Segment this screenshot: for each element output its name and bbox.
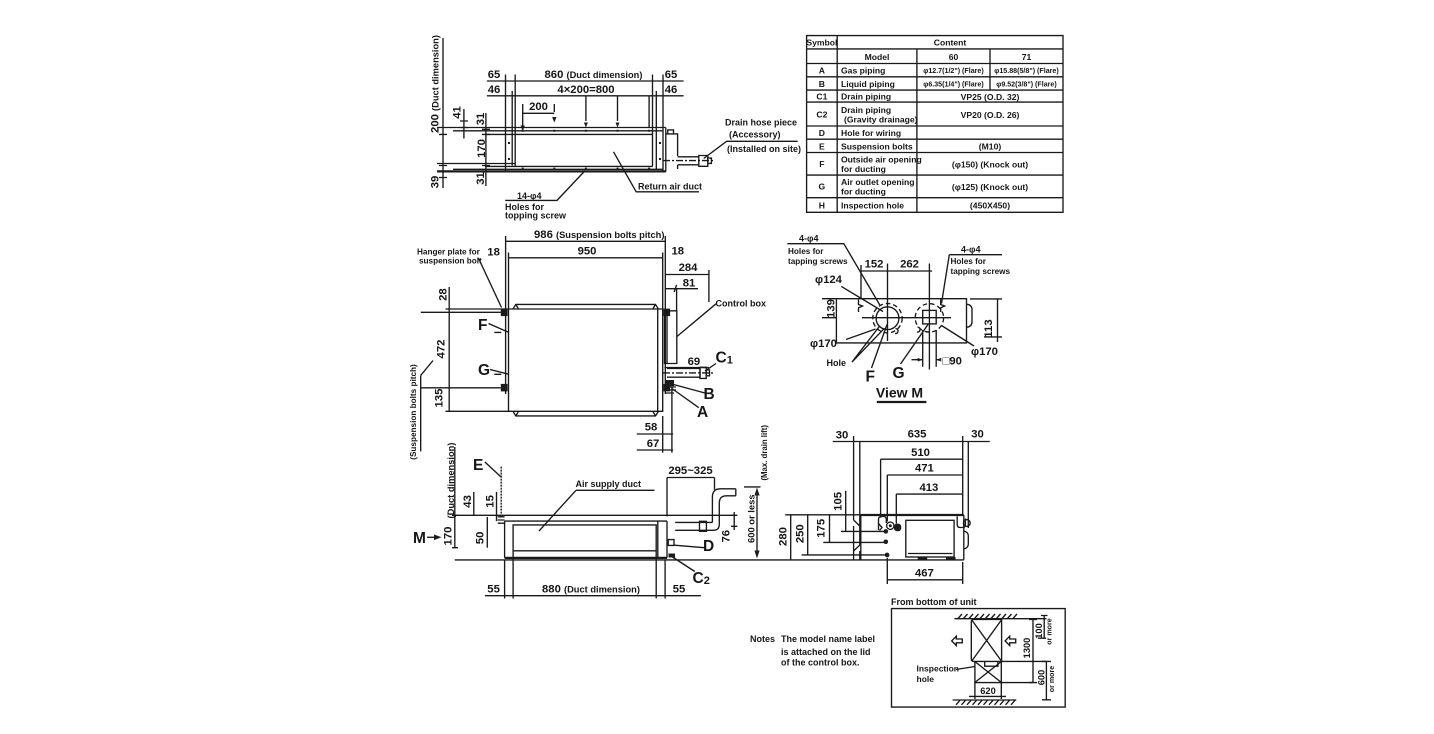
view M rectangle — [836, 299, 966, 343]
svg-text:175: 175 — [815, 519, 827, 538]
extension 284 right — [708, 270, 710, 302]
svg-text:hole: hole — [917, 674, 935, 684]
svg-text:or more: or more — [1048, 666, 1056, 692]
dim line 58 — [637, 433, 673, 435]
box inner right line — [657, 309, 659, 411]
suspension bolt side left pair with jogs — [854, 436, 860, 560]
drain coupling — [699, 156, 708, 167]
leader E — [485, 462, 501, 477]
svg-text:860 (Duct dimension): 860 (Duct dimension) — [545, 69, 643, 81]
svg-text:Inspection: Inspection — [917, 664, 960, 674]
dim line 55/880/55 — [485, 595, 701, 597]
dim 1300 line — [1029, 619, 1037, 683]
svg-text:41: 41 — [452, 106, 464, 119]
table row line C1 — [807, 101, 1063, 103]
svg-text:VP25 (O.D. 32): VP25 (O.D. 32) — [961, 92, 1020, 102]
control box inner line — [666, 311, 668, 364]
inspection cross diagonals — [975, 662, 1001, 683]
200 dim left ext with arrow — [522, 104, 524, 126]
front piping panel — [666, 521, 668, 558]
control box feet — [918, 557, 956, 560]
svg-text:413: 413 — [919, 482, 938, 494]
svg-text:18: 18 — [487, 247, 500, 259]
dim 620 exts — [975, 683, 1001, 699]
svg-text:φ124: φ124 — [815, 274, 843, 286]
dim line 510 — [881, 458, 963, 460]
svg-text:Hole for wiring: Hole for wiring — [841, 128, 901, 138]
svg-text:φ12.7(1/2") (Flare): φ12.7(1/2") (Flare) — [923, 67, 984, 75]
svg-text:Symbol: Symbol — [806, 38, 837, 48]
ext lines 880 dim — [505, 552, 665, 599]
screw hole mark left lower — [895, 329, 898, 334]
svg-text:471: 471 — [915, 463, 934, 475]
svg-text:15: 15 — [485, 495, 497, 508]
svg-text:1300: 1300 — [1022, 638, 1032, 659]
control box side dark rect — [906, 520, 954, 557]
svg-text:67: 67 — [647, 438, 660, 450]
leader 4-phi4 left — [787, 244, 879, 305]
svg-text:A: A — [697, 404, 708, 421]
dim 28 vertical line — [448, 287, 450, 312]
svg-text:G: G — [893, 365, 905, 382]
grommet 413 — [894, 524, 901, 532]
leader 4-phi4 right — [942, 255, 1003, 304]
svg-text:Hanger plate for: Hanger plate for — [417, 248, 481, 257]
svg-text:170: 170 — [476, 139, 488, 158]
detail outer rectangle — [892, 609, 1066, 708]
drain hose notch — [668, 130, 674, 134]
svg-text:φ170: φ170 — [971, 346, 998, 358]
dim 113 line — [970, 299, 1002, 342]
lower ext line — [437, 163, 515, 165]
unit outer right edge heavy — [662, 75, 664, 172]
top view box — [509, 309, 663, 411]
dim 76 line — [731, 512, 737, 530]
dim 250 line — [807, 515, 809, 555]
suspension pitch underline — [420, 375, 422, 451]
svg-text:F: F — [819, 159, 824, 169]
svg-text:472: 472 — [436, 340, 448, 359]
ext 471 left — [886, 475, 888, 522]
hanger bracket side right — [957, 516, 965, 527]
front top datum line — [455, 514, 737, 516]
pipe line 175 — [823, 541, 884, 543]
leader phi124 — [841, 286, 883, 311]
leader drain hose — [704, 141, 798, 158]
hole marks bottom row — [522, 168, 650, 170]
svg-text:φ6.35(1/4") (Flare): φ6.35(1/4") (Flare) — [923, 81, 984, 89]
leader phi170 left — [846, 329, 876, 340]
svg-text:30: 30 — [971, 429, 984, 441]
dim 15 vertical line — [496, 492, 498, 521]
front unit bottom — [505, 557, 667, 559]
svg-text:Gas piping: Gas piping — [841, 66, 885, 76]
svg-text:135: 135 — [434, 389, 446, 408]
bottom wall line — [953, 699, 1017, 701]
svg-text:65: 65 — [488, 69, 501, 81]
dim 600 or more line — [1042, 661, 1051, 699]
leader return air duct — [614, 152, 700, 192]
hanger bracket mark left — [859, 300, 863, 313]
dim 170 vertical line — [452, 447, 458, 548]
svg-text:280: 280 — [778, 527, 790, 546]
dim line 413 — [896, 493, 962, 495]
600 or less arrow line — [744, 487, 761, 552]
dim 472/135 vertical line — [448, 312, 450, 411]
leader control box — [677, 304, 716, 337]
drain pipe — [678, 157, 699, 165]
svg-text:(Max. drain lift): (Max. drain lift) — [760, 425, 769, 481]
stub A bracket — [665, 387, 676, 393]
svg-text:18: 18 — [672, 246, 685, 258]
svg-text:55: 55 — [487, 583, 500, 595]
leader F — [872, 325, 888, 369]
svg-text:(Gravity drainage): (Gravity drainage) — [844, 115, 918, 125]
svg-text:(450X450): (450X450) — [970, 201, 1010, 211]
svg-text:(M10): (M10) — [979, 142, 1002, 152]
pipe C1 tip — [706, 370, 709, 376]
hanger plate top left — [501, 309, 508, 317]
pipe C1 body — [667, 369, 700, 378]
duct opening top line — [485, 133, 653, 135]
suspension bolt centerline left — [505, 236, 507, 394]
dim line 152/262 — [861, 270, 932, 272]
svg-text:71: 71 — [1022, 52, 1032, 62]
svg-text:60: 60 — [949, 52, 959, 62]
svg-text:262: 262 — [900, 259, 919, 271]
svg-text:(Accessory): (Accessory) — [729, 130, 781, 140]
leader A — [672, 389, 699, 408]
table row line B — [807, 89, 1063, 91]
drain riser pipe — [712, 489, 735, 524]
svg-text:Return air duct: Return air duct — [638, 182, 702, 192]
svg-text:76: 76 — [721, 530, 733, 543]
table row line model — [807, 63, 1063, 65]
ext 295 right — [714, 478, 716, 490]
svg-text:200 (Duct dimension): 200 (Duct dimension) — [430, 35, 442, 133]
suspension pitch leader — [421, 361, 433, 376]
svg-text:D: D — [703, 538, 714, 555]
duct opening bottom line — [485, 165, 653, 167]
800 right ext — [648, 97, 650, 129]
svg-text:Liquid piping: Liquid piping — [841, 79, 895, 89]
leader C1 — [705, 364, 716, 372]
svg-text:58: 58 — [645, 422, 658, 434]
svg-text:C1: C1 — [816, 92, 827, 102]
duct opening right edge — [652, 75, 654, 167]
svg-text:39: 39 — [430, 176, 442, 189]
svg-text:14-φ4: 14-φ4 — [517, 191, 541, 201]
svg-text:φ170: φ170 — [810, 338, 837, 350]
unit cross diagonals — [972, 620, 1002, 661]
inspection hole rect — [975, 661, 1001, 682]
svg-text:950: 950 — [578, 246, 597, 258]
svg-text:tapping screws: tapping screws — [788, 257, 848, 266]
extension 81 right — [676, 289, 678, 311]
svg-text:139: 139 — [826, 299, 838, 318]
unit outer left edge heavy — [505, 75, 507, 172]
top wall line — [954, 618, 1046, 620]
svg-text:986 (Suspension bolts pitch): 986 (Suspension bolts pitch) — [534, 229, 664, 241]
unit bottom line — [437, 170, 666, 172]
side unit right edge — [963, 515, 965, 560]
bottom wall hatches — [956, 700, 1015, 705]
dim 175 line — [829, 515, 831, 543]
svg-text:113: 113 — [983, 319, 995, 337]
square90 dim arrows — [912, 359, 941, 361]
phi170 dashed circle right — [915, 304, 943, 332]
right edge stubs — [964, 531, 969, 549]
ext 295 left — [666, 478, 668, 517]
ext line box right down — [662, 416, 664, 453]
suspension bolt E hatched — [500, 467, 502, 517]
table column line symbol — [836, 36, 838, 213]
svg-text:100: 100 — [1034, 623, 1044, 639]
square90 ext lines — [923, 330, 937, 367]
svg-text:Drain piping: Drain piping — [841, 92, 891, 102]
pipe line 250 — [802, 554, 886, 556]
unit bottom line ext right — [1002, 660, 1047, 662]
svg-text:for ducting: for ducting — [841, 187, 886, 197]
flow arrow left — [952, 636, 963, 645]
hanger bracket mark mid-right — [941, 300, 945, 313]
hanger bracket right-edge — [967, 304, 973, 327]
svg-text:31: 31 — [475, 172, 487, 185]
duct opening front — [513, 525, 656, 551]
pipe dots — [884, 529, 889, 534]
svg-text:510: 510 — [911, 447, 930, 459]
svg-text:284: 284 — [679, 262, 699, 274]
table column line model — [916, 49, 918, 212]
svg-text:of the control box.: of the control box. — [781, 658, 860, 668]
svg-text:Content: Content — [934, 38, 967, 48]
dim line 30/635/30 — [833, 441, 990, 443]
svg-text:E: E — [819, 142, 825, 152]
front unit left edge — [504, 521, 506, 558]
bolt circle side left — [887, 522, 894, 529]
dim line 471 — [887, 474, 962, 476]
unit flange top line — [453, 130, 663, 132]
dim 139 ticks — [822, 299, 837, 318]
centerline right hole — [928, 264, 930, 370]
svg-text:Inspection hole: Inspection hole — [841, 201, 904, 211]
svg-text:M: M — [413, 530, 426, 547]
table row line header — [807, 48, 1063, 50]
bolt circle side right — [963, 520, 970, 527]
duct opening left edge — [514, 75, 516, 167]
svg-text:(Suspension bolts pitch): (Suspension bolts pitch) — [409, 364, 418, 460]
unit rect bold — [971, 620, 1001, 662]
svg-text:H: H — [819, 201, 825, 211]
svg-text:152: 152 — [865, 259, 884, 271]
drain centerline — [663, 160, 714, 162]
svg-text:Air supply duct: Air supply duct — [576, 479, 642, 489]
side unit left edge — [860, 515, 862, 560]
dim line 950 — [509, 257, 663, 259]
flow arrow right — [1005, 636, 1016, 645]
suspension bolt side right pair — [963, 436, 969, 528]
suspension bolt centerline right — [664, 236, 666, 394]
hole marks sides — [508, 142, 661, 160]
centerline left hole — [887, 264, 889, 342]
drain tip — [708, 158, 712, 163]
left dim extension vertical 200 duct / 39 — [439, 38, 447, 188]
dim 105 line — [845, 491, 847, 532]
dim 467 ext left — [886, 558, 888, 584]
svg-text:467: 467 — [915, 567, 934, 579]
box lid bottom line with chamfers — [513, 411, 659, 416]
front unit right edge — [657, 521, 659, 558]
pipe C1 centerline — [663, 372, 714, 374]
pipe C1 coupling — [700, 367, 706, 378]
leader C2 — [672, 557, 695, 572]
dim line 986 suspension bolts pitch — [506, 240, 666, 242]
ext line bolt bottom left — [421, 387, 501, 389]
control box rect — [665, 311, 677, 364]
ext 413 left — [895, 494, 897, 523]
leader air supply duct — [539, 490, 655, 531]
pipe coupling front — [700, 521, 707, 531]
svg-text:D: D — [819, 128, 825, 138]
svg-text:(φ125) (Knock out): (φ125) (Knock out) — [952, 182, 1028, 192]
svg-text:43: 43 — [462, 495, 474, 508]
svg-text:G: G — [819, 182, 826, 192]
side top datum left ext — [785, 514, 861, 516]
svg-text:φ15.88(5/8") (Flare): φ15.88(5/8") (Flare) — [994, 67, 1059, 75]
svg-text:55: 55 — [673, 583, 686, 595]
top wall hatches — [958, 614, 1017, 619]
hanger plate bottom left — [501, 384, 508, 392]
leader G — [901, 325, 929, 365]
unit far right edge — [665, 128, 667, 172]
dim line 860 duct dimension — [487, 80, 684, 82]
hole column arrows — [586, 97, 618, 122]
dim 100 or more line — [1038, 616, 1048, 639]
flange inner left — [511, 91, 513, 166]
svg-text:F: F — [478, 317, 487, 334]
leader 14-phi4 — [505, 171, 585, 201]
svg-text:VP20 (O.D. 26): VP20 (O.D. 26) — [961, 110, 1020, 120]
screw hole mark right lower — [917, 327, 920, 332]
dim line 295~325 — [667, 477, 715, 479]
bolt bracket E — [498, 517, 505, 523]
dim line 620 — [969, 695, 1006, 697]
hanger bracket side left — [879, 517, 887, 531]
drain horizontal pipe front — [675, 522, 719, 530]
leaders Hole — [852, 326, 885, 362]
table row line A — [807, 76, 1063, 78]
svg-text:46: 46 — [488, 84, 501, 96]
ext line bolt top left — [421, 311, 501, 313]
svg-text:81: 81 — [683, 278, 696, 290]
hole marks top row — [522, 130, 650, 132]
svg-text:4-φ4: 4-φ4 — [799, 234, 818, 244]
table column line 60/71 — [989, 49, 991, 90]
ext line box top left — [446, 308, 509, 310]
svg-text:E: E — [473, 457, 483, 474]
inspection bottom ext right — [1001, 682, 1033, 684]
svg-text:635: 635 — [908, 429, 927, 441]
table row line D — [807, 138, 1063, 140]
svg-text:or more: or more — [1046, 618, 1054, 644]
dim 31/170/31 vertical line — [482, 113, 490, 186]
svg-text:Notes: Notes — [750, 634, 775, 644]
svg-text:B: B — [819, 79, 825, 89]
svg-text:A: A — [819, 66, 825, 76]
leader B — [673, 384, 705, 393]
svg-text:is attached on the lid: is attached on the lid — [781, 647, 871, 657]
front unit top line — [505, 520, 667, 522]
svg-text:Holes for: Holes for — [788, 247, 824, 256]
svg-text:50: 50 — [475, 532, 487, 545]
svg-text:295~325: 295~325 — [668, 465, 712, 477]
extension 950 right — [662, 253, 664, 310]
svg-text:65: 65 — [665, 69, 678, 81]
svg-text:69: 69 — [688, 356, 701, 368]
ext line 152 left — [860, 265, 862, 299]
dim 41 vertical line — [460, 109, 468, 139]
control box inner bottom line — [908, 553, 953, 555]
extension 950 left — [508, 253, 510, 310]
table outer frame — [807, 36, 1063, 213]
table row line C2 — [807, 125, 1063, 127]
leader inspection hole — [956, 667, 975, 670]
dim 280 line — [790, 515, 792, 560]
svg-text:Holes for: Holes for — [951, 257, 987, 266]
svg-text:Air outlet opening: Air outlet opening — [841, 177, 915, 187]
svg-text:31: 31 — [475, 113, 487, 126]
svg-text:4-φ4: 4-φ4 — [961, 245, 980, 255]
svg-text:(φ150) (Knock out): (φ150) (Knock out) — [952, 160, 1028, 170]
200 dim right ext with arrow — [553, 104, 555, 112]
ext line A down — [671, 387, 673, 453]
title underline — [877, 401, 927, 403]
hanger plate top right — [663, 309, 670, 317]
svg-text:F: F — [866, 369, 875, 386]
dim line 200 pitch — [523, 112, 555, 114]
leader G — [490, 370, 509, 375]
table row line E — [807, 152, 1063, 154]
svg-text:tapping screws: tapping screws — [951, 267, 1011, 276]
leader F — [489, 324, 509, 333]
ext line box bottom left — [446, 410, 509, 412]
svg-text:600 or less: 600 or less — [745, 494, 756, 542]
svg-text:170: 170 — [443, 527, 455, 546]
flange inner right — [655, 91, 657, 169]
hole D square — [668, 540, 674, 546]
svg-text:200: 200 — [529, 101, 548, 113]
svg-text:suspension bolt: suspension bolt — [419, 257, 482, 266]
phi170 dashed circle left — [873, 304, 902, 333]
svg-text:46: 46 — [665, 84, 678, 96]
svg-text:30: 30 — [836, 430, 849, 442]
inspection hole notch — [985, 661, 998, 666]
svg-text:G: G — [478, 362, 490, 379]
phi124 circle — [876, 307, 899, 330]
M arrow — [427, 536, 435, 538]
svg-text:Outside air opening: Outside air opening — [841, 155, 922, 165]
svg-text:The model name label: The model name label — [781, 634, 875, 644]
ext 510 left — [880, 459, 882, 518]
svg-text:28: 28 — [437, 288, 449, 301]
svg-text:topping screw: topping screw — [505, 211, 567, 221]
holes horizontal centerline — [862, 317, 951, 319]
svg-text:φ9.52(3/8") (Flare): φ9.52(3/8") (Flare) — [996, 81, 1057, 89]
svg-text:□90: □90 — [943, 356, 962, 368]
dim line 467 — [887, 579, 962, 581]
svg-text:4×200=800: 4×200=800 — [557, 84, 614, 96]
dim line 81 — [665, 285, 698, 292]
